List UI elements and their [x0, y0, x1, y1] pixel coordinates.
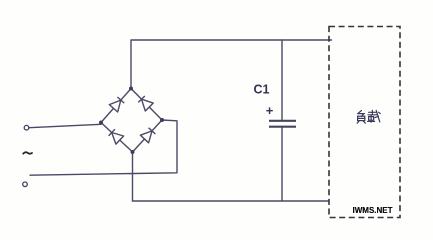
node right junction dot	[160, 118, 164, 122]
svg-text:C1: C1	[254, 83, 270, 97]
diode D3 bottom-left (- node to left node)	[109, 129, 124, 144]
load box (dashed)	[329, 27, 400, 218]
wire AC input 1 from terminal to bridge left node	[29, 124, 101, 127]
wire bottom rail to load	[133, 200, 329, 202]
AC input terminal 2	[23, 182, 28, 187]
diode D4 bottom-right (- node to right node)	[140, 128, 155, 143]
capacitor C1 plates	[269, 121, 296, 127]
node top (+) junction dot	[129, 87, 133, 91]
bridge rectifier diamond edges	[101, 89, 162, 153]
wire AC input 2 lower run to bridge right node	[30, 120, 177, 175]
svg-text:IWMS.NET: IWMS.NET	[353, 206, 393, 215]
svg-text:+: +	[266, 103, 274, 118]
diode D1 top-left (left node to + node)	[109, 97, 124, 112]
node bottom (-) junction dot	[131, 150, 135, 154]
AC source tilde symbol	[23, 152, 32, 154]
label 负载 (load) drawn strokes	[357, 110, 380, 123]
diode D2 top-right (right node to + node)	[138, 96, 153, 111]
AC input terminal 1	[24, 125, 29, 130]
wire capacitor bottom lead	[281, 128, 283, 201]
wire top rail from bridge + output to load	[131, 40, 332, 89]
wire capacitor top lead	[281, 40, 283, 120]
node left junction dot	[99, 121, 103, 125]
wire bridge bottom node down	[132, 152, 134, 201]
